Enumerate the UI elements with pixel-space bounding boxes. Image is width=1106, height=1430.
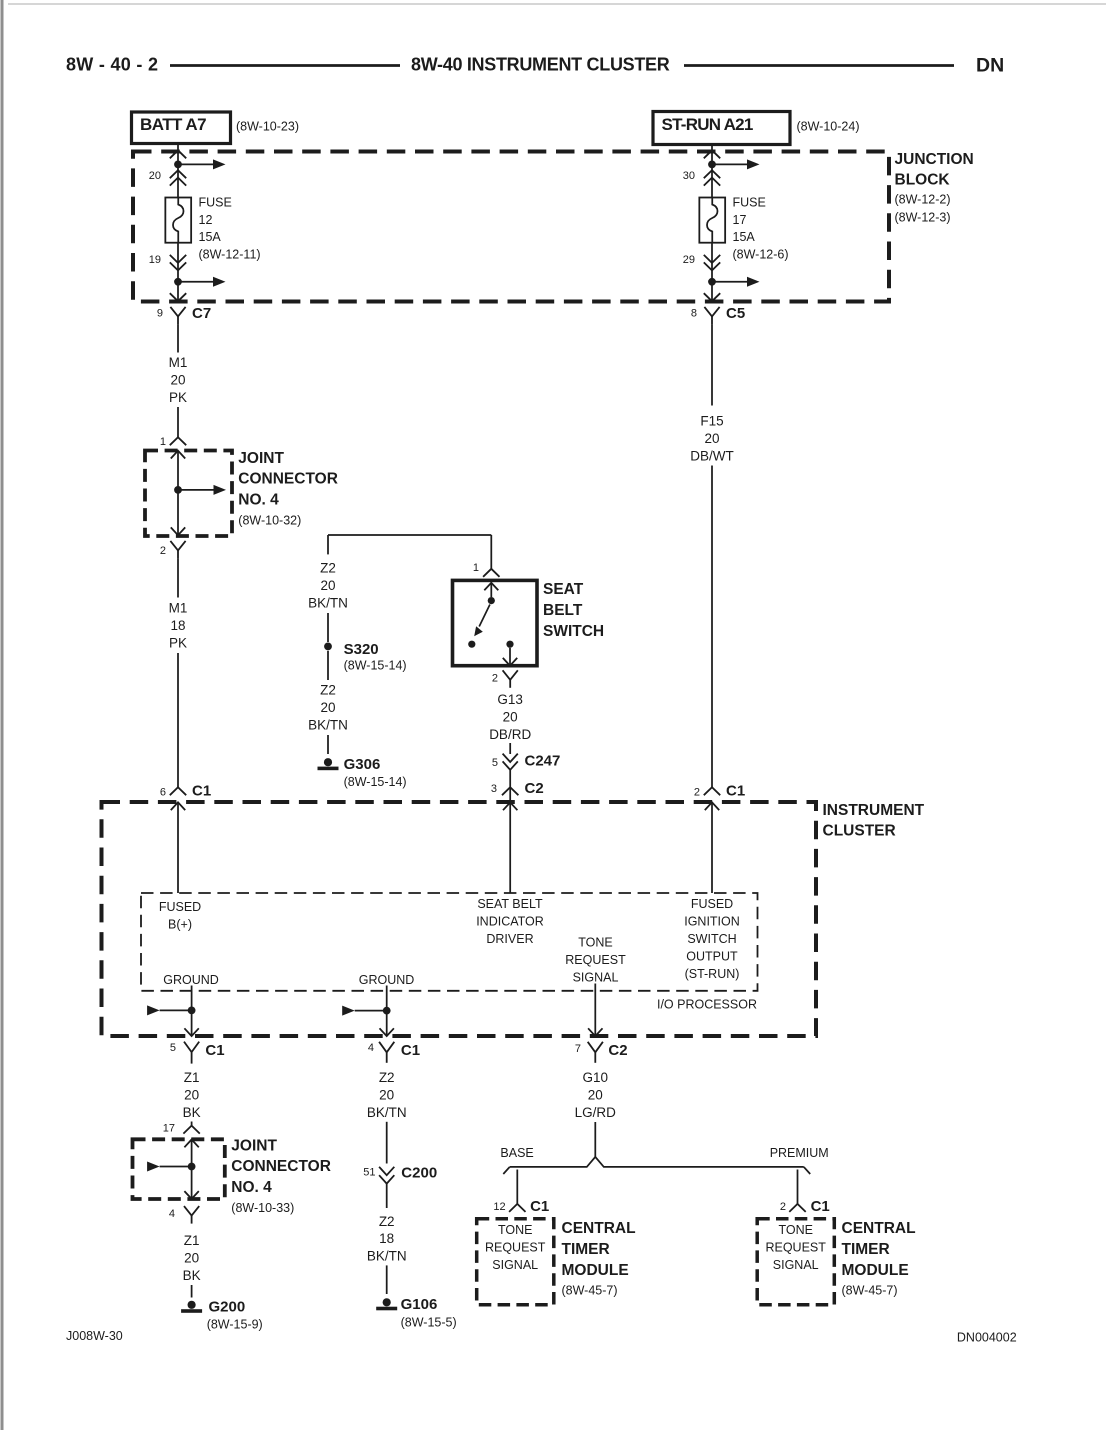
arrow into instrument cluster (fused B+) — [171, 802, 185, 810]
arrow out of joint connector (upper) — [171, 527, 185, 535]
svg-text:19: 19 — [149, 254, 161, 266]
svg-text:SIGNAL: SIGNAL — [492, 1258, 538, 1272]
svg-text:BK/TN: BK/TN — [308, 596, 348, 611]
double chevron terminal below fuse 12 — [170, 255, 186, 271]
wire through joint connector (upper) — [177, 451, 179, 536]
in-line connector C1 symbol (ground left) — [184, 1042, 199, 1064]
fuse 12 label — [199, 196, 261, 262]
pin 7 (cluster C2) — [575, 1043, 581, 1055]
pin 4 (joint connector lower) — [169, 1208, 175, 1220]
svg-text:FUSE: FUSE — [733, 196, 766, 210]
pin 12 (CTM base C1) — [493, 1201, 505, 1213]
wire label G10 20 LG/RD — [575, 1070, 617, 1120]
reference (8W-10-24) — [797, 120, 860, 134]
switch common contact — [488, 597, 495, 604]
pin 30 — [683, 170, 695, 182]
svg-text:GROUND: GROUND — [163, 973, 219, 987]
svg-text:SIGNAL: SIGNAL — [573, 970, 619, 984]
svg-text:20: 20 — [170, 372, 185, 387]
connector chevron at joint connector no.4 (lower) entry — [183, 1126, 199, 1134]
svg-text:20: 20 — [320, 700, 335, 715]
svg-text:8: 8 — [691, 308, 697, 320]
pin 3 (C2) — [491, 783, 497, 795]
connector symbol at switch pin 2 — [503, 670, 518, 688]
svg-text:B(+): B(+) — [168, 917, 192, 931]
wire G13 to C247 — [509, 743, 511, 754]
svg-text:BK/TN: BK/TN — [367, 1249, 407, 1264]
connector chevron at junction block entry (BATT) — [170, 150, 186, 158]
junction dot with incoming branch arrow (ground left) — [147, 1005, 195, 1015]
label C5 — [726, 305, 745, 322]
central timer module (base) boundary — [477, 1219, 554, 1305]
svg-text:1: 1 — [160, 436, 166, 448]
svg-text:Z2: Z2 — [320, 561, 336, 576]
svg-text:SIGNAL: SIGNAL — [773, 1258, 819, 1272]
label C200 — [401, 1164, 437, 1181]
arrow into joint connector (lower) — [184, 1140, 198, 1148]
svg-text:4: 4 — [368, 1042, 374, 1054]
central timer module (premium) label — [842, 1220, 916, 1297]
svg-text:20: 20 — [184, 1088, 199, 1103]
wire splitter brace — [503, 1157, 810, 1174]
pin 8 — [691, 308, 697, 320]
connector chevron at junction block exit (C7) — [170, 293, 186, 301]
pin 17 — [163, 1123, 175, 1135]
pin 9 — [157, 308, 163, 320]
svg-text:SEAT BELT: SEAT BELT — [477, 897, 543, 911]
svg-text:I/O PROCESSOR: I/O PROCESSOR — [657, 998, 757, 1012]
pin 6 — [160, 787, 166, 799]
header rule left — [170, 64, 400, 67]
wire M1 18 PK to instrument cluster C1 — [177, 653, 179, 787]
connector symbol below joint connector (upper) — [170, 541, 185, 559]
svg-text:C200: C200 — [401, 1164, 437, 1181]
svg-text:(8W-12-2): (8W-12-2) — [895, 193, 951, 207]
in-line connector C7 symbol — [170, 307, 185, 325]
svg-text:20: 20 — [184, 1250, 199, 1265]
svg-text:9: 9 — [157, 308, 163, 320]
wire label Z1 20 BK (upper) — [183, 1070, 201, 1120]
svg-text:(ST-RUN): (ST-RUN) — [685, 967, 740, 981]
svg-text:REQUEST: REQUEST — [485, 1240, 546, 1254]
wire label F15 20 DB/WT — [690, 413, 734, 463]
port label TONE REQUEST SIGNAL (base) — [485, 1223, 546, 1272]
wire C200 to Z2 18 label — [386, 1184, 388, 1208]
pin 51 (C200) — [363, 1167, 375, 1179]
switch blade arrow — [474, 605, 490, 637]
svg-text:CENTRAL: CENTRAL — [562, 1220, 636, 1237]
svg-text:CONNECTOR: CONNECTOR — [238, 471, 338, 488]
wire Z2 to splice S320 — [327, 613, 329, 642]
in-line connector C1 symbol (ground right) — [379, 1042, 394, 1063]
footer drawing number DN004002 — [957, 1331, 1017, 1345]
svg-text:(8W-10-33): (8W-10-33) — [231, 1201, 294, 1215]
svg-text:6: 6 — [160, 787, 166, 799]
fuse 12 symbol — [165, 198, 191, 243]
in-line connector C2 symbol (tone request) — [588, 1042, 603, 1063]
central timer module (premium) boundary — [757, 1219, 834, 1305]
svg-text:CLUSTER: CLUSTER — [823, 822, 896, 839]
svg-text:BK/TN: BK/TN — [367, 1105, 407, 1120]
svg-text:C1: C1 — [205, 1042, 224, 1059]
wire C7 to M1 label — [177, 324, 179, 352]
svg-text:20: 20 — [588, 1088, 603, 1103]
I/O processor label — [657, 998, 757, 1012]
wire label G13 20 DB/RD — [489, 692, 531, 742]
arrow into instrument cluster (fused ignition) — [705, 802, 719, 810]
port label GROUND (right) — [359, 973, 415, 987]
svg-text:S320: S320 — [344, 641, 379, 658]
svg-text:5: 5 — [492, 757, 498, 769]
label G306 — [344, 756, 407, 789]
svg-text:DB/RD: DB/RD — [489, 727, 531, 742]
svg-text:C1: C1 — [192, 783, 211, 800]
wire switch output to pin 2 — [509, 648, 511, 666]
wire joint connector to M1 18 label — [177, 558, 179, 597]
port label TONE REQUEST SIGNAL (premium) — [765, 1223, 826, 1272]
wire Z1 to ground G200 — [191, 1285, 193, 1298]
wire C247 to I/O processor — [509, 770, 511, 893]
svg-text:INSTRUMENT: INSTRUMENT — [823, 802, 925, 819]
wire label Z2 20 BK/TN (lower) — [308, 683, 348, 733]
svg-text:(8W-12-11): (8W-12-11) — [199, 248, 261, 262]
svg-text:5: 5 — [170, 1042, 176, 1054]
svg-text:SWITCH: SWITCH — [687, 932, 736, 946]
wire label Z2 20 BK/TN (upper) — [308, 561, 348, 611]
joint connector no.4 (lower) boundary — [133, 1139, 225, 1199]
svg-text:4: 4 — [169, 1208, 175, 1220]
connector chevron at CTM base — [509, 1204, 525, 1212]
svg-text:MODULE: MODULE — [562, 1262, 629, 1279]
label G200 — [207, 1299, 263, 1332]
svg-text:20: 20 — [149, 170, 161, 182]
svg-text:IGNITION: IGNITION — [684, 915, 740, 929]
wire through joint connector (lower) — [191, 1140, 193, 1199]
svg-text:FUSE: FUSE — [199, 196, 232, 210]
wire M1 to joint connector — [177, 407, 179, 438]
wire C5 down — [711, 324, 713, 405]
svg-text:PK: PK — [169, 636, 187, 651]
svg-text:C1: C1 — [530, 1198, 549, 1215]
junction dot with branch arrow (fuse 17 feed) — [708, 159, 759, 169]
svg-text:TONE: TONE — [578, 935, 613, 949]
wire Z2 to C200 — [386, 1122, 388, 1164]
svg-text:BLOCK: BLOCK — [895, 171, 951, 188]
svg-text:TIMER: TIMER — [842, 1241, 890, 1258]
in-line connector C200 symbol — [379, 1167, 394, 1184]
branch label BASE — [500, 1146, 533, 1160]
label C7 — [192, 305, 211, 322]
connector chevron at CTM premium — [789, 1204, 805, 1212]
svg-text:12: 12 — [493, 1201, 505, 1213]
svg-text:G106: G106 — [401, 1296, 438, 1313]
terminal chevron inside switch — [484, 583, 498, 591]
svg-text:7: 7 — [575, 1043, 581, 1055]
svg-text:20: 20 — [320, 578, 335, 593]
switch output contact — [506, 641, 513, 648]
pin 20 — [149, 170, 161, 182]
node BATT A7 — [132, 112, 231, 144]
svg-text:C2: C2 — [525, 780, 544, 797]
seat belt switch label — [543, 581, 604, 640]
pin 5 (C247) — [492, 757, 498, 769]
wire fuse 12 to C7 — [177, 243, 179, 301]
svg-text:F15: F15 — [700, 413, 723, 428]
pin 5 (cluster C1) — [170, 1042, 176, 1054]
label C2 — [525, 780, 544, 797]
svg-text:2: 2 — [492, 673, 498, 685]
svg-text:M1: M1 — [169, 355, 188, 370]
pin 2 (seat belt switch) — [492, 673, 498, 685]
svg-text:(8W-10-32): (8W-10-32) — [238, 513, 301, 527]
junction block boundary — [133, 152, 889, 302]
svg-text:BK: BK — [183, 1268, 201, 1283]
svg-text:JUNCTION: JUNCTION — [895, 151, 974, 168]
pin 2 (CTM premium C1) — [780, 1201, 786, 1213]
wire premium branch — [797, 1170, 799, 1204]
splice S320 — [324, 643, 332, 651]
connector chevron at junction block exit (C5) — [704, 293, 720, 301]
svg-text:(8W-15-5): (8W-15-5) — [401, 1316, 457, 1330]
svg-text:3: 3 — [491, 783, 497, 795]
svg-text:JOINT: JOINT — [238, 450, 284, 467]
port label GROUND (left) — [163, 973, 219, 987]
svg-text:PREMIUM: PREMIUM — [770, 1146, 829, 1160]
svg-text:C1: C1 — [401, 1042, 420, 1059]
fuse 17 label — [733, 196, 789, 262]
svg-text:G306: G306 — [344, 756, 381, 773]
svg-text:BK/TN: BK/TN — [308, 718, 348, 733]
branch label PREMIUM — [770, 1146, 829, 1160]
connector chevron at joint connector entry — [170, 437, 186, 445]
svg-text:51: 51 — [363, 1167, 375, 1179]
svg-text:ST-RUN A21: ST-RUN A21 — [662, 115, 753, 134]
connector symbol below joint connector (lower) — [184, 1206, 199, 1224]
svg-text:18: 18 — [379, 1231, 394, 1246]
svg-text:(8W-15-9): (8W-15-9) — [207, 1318, 263, 1332]
svg-text:(8W-10-24): (8W-10-24) — [797, 120, 860, 134]
svg-text:SWITCH: SWITCH — [543, 623, 604, 640]
ground G200 — [181, 1301, 202, 1313]
joint connector bus dot with incoming arrow — [147, 1162, 195, 1172]
label C1 (ground right) — [401, 1042, 420, 1059]
instrument cluster label — [823, 802, 925, 840]
wire ST-RUN A21 to fuse 17 — [711, 145, 713, 198]
wire G10 to splitter — [594, 1122, 596, 1158]
svg-text:(8W-15-14): (8W-15-14) — [344, 775, 407, 789]
svg-text:15A: 15A — [733, 230, 756, 244]
svg-text:TONE: TONE — [498, 1223, 533, 1237]
joint connector no.4 (upper) boundary — [145, 451, 232, 537]
svg-text:G10: G10 — [583, 1070, 609, 1085]
junction dot with incoming branch arrow (ground right) — [342, 1006, 390, 1016]
svg-text:FUSED: FUSED — [159, 900, 201, 914]
svg-text:REQUEST: REQUEST — [765, 1240, 826, 1254]
wire label Z2 18 BK/TN — [367, 1214, 407, 1264]
svg-text:DB/WT: DB/WT — [690, 448, 734, 463]
pin 1 (seat belt switch) — [473, 562, 479, 574]
svg-text:Z2: Z2 — [379, 1070, 395, 1085]
svg-text:18: 18 — [170, 618, 185, 633]
joint connector bus dot with branch arrow — [174, 485, 226, 495]
port label TONE REQUEST SIGNAL — [565, 935, 626, 984]
svg-text:LG/RD: LG/RD — [575, 1105, 617, 1120]
wire ground right out of cluster — [386, 986, 388, 1036]
label G106 — [401, 1296, 457, 1330]
svg-text:DN: DN — [976, 55, 1004, 77]
wire Z2 to ground G106 — [386, 1265, 388, 1294]
svg-text:17: 17 — [733, 213, 747, 227]
instrument cluster boundary — [102, 802, 817, 1036]
label C1 (ground left) — [205, 1042, 224, 1059]
label C1 (fused ignition) — [726, 783, 745, 800]
label C2 (tone request) — [608, 1042, 627, 1059]
pin 29 — [683, 254, 695, 266]
wire ground left out of cluster — [191, 986, 193, 1036]
svg-text:(8W-12-3): (8W-12-3) — [895, 211, 951, 225]
ground G306 — [318, 758, 339, 770]
svg-text:C7: C7 — [192, 305, 211, 322]
svg-text:C247: C247 — [525, 753, 561, 770]
svg-text:17: 17 — [163, 1123, 175, 1135]
joint connector no.4 (upper) label — [238, 450, 338, 528]
wire base branch — [516, 1170, 518, 1204]
wire BATT A7 to fuse 12 — [177, 144, 179, 198]
svg-text:JOINT: JOINT — [231, 1137, 277, 1154]
connector chevron at seat belt switch pin 1 — [483, 569, 499, 577]
connector chevron at cluster entry C1 — [170, 787, 186, 795]
junction dot with branch arrow (fuse 17 output) — [708, 277, 759, 287]
svg-text:BASE: BASE — [500, 1146, 533, 1160]
wire label M1 20 PK — [169, 355, 188, 405]
wire Z1 to joint connector — [191, 1122, 193, 1126]
pin 2 (cluster C1) — [694, 787, 700, 799]
double chevron terminal above fuse 17 — [704, 170, 720, 185]
svg-text:C2: C2 — [608, 1042, 627, 1059]
junction dot with branch arrow (fuse 12 output) — [174, 277, 225, 287]
svg-text:(8W-10-23): (8W-10-23) — [236, 120, 299, 134]
svg-text:INDICATOR: INDICATOR — [476, 915, 544, 929]
footer sheet number J008W-30 — [66, 1329, 123, 1343]
svg-text:CENTRAL: CENTRAL — [842, 1220, 916, 1237]
svg-text:2: 2 — [160, 545, 166, 557]
wire Z2 to ground G306 — [327, 735, 329, 754]
svg-text:NO. 4: NO. 4 — [231, 1179, 272, 1196]
pin 19 — [149, 254, 161, 266]
svg-text:2: 2 — [694, 787, 700, 799]
svg-text:BATT A7: BATT A7 — [140, 115, 206, 134]
wire fuse 17 to C5 — [711, 243, 713, 301]
joint connector no.4 (lower) label — [231, 1137, 331, 1215]
header code DN — [976, 55, 1004, 77]
pin 1 — [160, 436, 166, 448]
svg-text:Z1: Z1 — [184, 1070, 200, 1085]
in-line connector C5 symbol — [704, 307, 719, 325]
svg-text:20: 20 — [379, 1088, 394, 1103]
label C1 (CTM base) — [530, 1198, 549, 1215]
wire into I/O processor (fused ignition) — [711, 802, 713, 893]
svg-text:MODULE: MODULE — [842, 1262, 909, 1279]
svg-text:Z2: Z2 — [379, 1214, 395, 1229]
svg-text:C1: C1 — [811, 1198, 830, 1215]
wire to switch common — [490, 583, 492, 597]
label C1 (CTM premium) — [811, 1198, 830, 1215]
wire tone request out of cluster — [594, 984, 596, 1036]
label S320 — [344, 641, 407, 673]
port label SEAT BELT INDICATOR DRIVER — [476, 897, 544, 946]
arrow into instrument cluster (seat belt driver) — [503, 802, 517, 810]
svg-text:(8W-12-6): (8W-12-6) — [733, 248, 789, 262]
svg-text:BK: BK — [183, 1105, 201, 1120]
svg-text:Z2: Z2 — [320, 683, 336, 698]
double chevron terminal above fuse 12 — [170, 170, 186, 185]
pin 4 (cluster C1) — [368, 1042, 374, 1054]
header page number 8W - 40 - 2 — [66, 55, 158, 75]
svg-text:8W-40 INSTRUMENT CLUSTER: 8W-40 INSTRUMENT CLUSTER — [411, 55, 670, 75]
svg-text:PK: PK — [169, 390, 187, 405]
svg-text:G200: G200 — [209, 1299, 246, 1316]
port label FUSED B(+) — [159, 900, 201, 931]
svg-text:CONNECTOR: CONNECTOR — [231, 1158, 331, 1175]
wire into I/O processor (fused B+) — [177, 802, 179, 893]
wire label M1 18 PK — [169, 601, 188, 651]
svg-text:NO. 4: NO. 4 — [238, 492, 279, 509]
node ST-RUN A21 — [653, 112, 790, 145]
I/O processor boundary — [141, 893, 758, 991]
svg-text:G13: G13 — [497, 692, 523, 707]
svg-text:TONE: TONE — [778, 1223, 813, 1237]
label C247 — [525, 753, 561, 770]
pin 2 — [160, 545, 166, 557]
svg-text:1: 1 — [473, 562, 479, 574]
in-line connector C247 symbol — [503, 754, 518, 770]
arrow out of seat belt switch — [503, 658, 517, 666]
svg-text:DN004002: DN004002 — [957, 1331, 1017, 1345]
svg-text:30: 30 — [683, 170, 695, 182]
svg-text:20: 20 — [503, 710, 518, 725]
svg-text:FUSED: FUSED — [691, 897, 733, 911]
svg-text:J008W-30: J008W-30 — [66, 1329, 123, 1343]
svg-text:(8W-45-7): (8W-45-7) — [562, 1283, 618, 1297]
svg-text:(8W-45-7): (8W-45-7) — [842, 1283, 898, 1297]
junction dot with branch arrow (fuse 12 feed) — [174, 159, 225, 169]
svg-text:BELT: BELT — [543, 602, 583, 619]
header rule right — [684, 64, 954, 67]
ground G106 — [376, 1298, 397, 1310]
port label FUSED IGNITION SWITCH OUTPUT (ST-RUN) — [684, 897, 740, 981]
svg-text:OUTPUT: OUTPUT — [686, 950, 738, 964]
arrow into joint connector (upper) — [171, 451, 185, 459]
wire F15 to instrument cluster C1 — [711, 466, 713, 788]
svg-text:GROUND: GROUND — [359, 973, 415, 987]
junction block label — [895, 151, 974, 225]
svg-text:Z1: Z1 — [184, 1233, 200, 1248]
connector chevron at junction block entry (ST-RUN) — [704, 150, 720, 158]
label C1 (fused B+) — [192, 783, 211, 800]
seat belt switch boundary — [453, 580, 538, 665]
svg-text:C1: C1 — [726, 783, 745, 800]
wire label Z2 20 BK/TN (cluster) — [367, 1070, 407, 1120]
wire Z2 branch to seat belt switch — [328, 535, 491, 569]
svg-text:(8W-15-14): (8W-15-14) — [344, 659, 407, 673]
arrow out of instrument cluster (ground left) — [184, 1028, 198, 1036]
svg-text:REQUEST: REQUEST — [565, 953, 626, 967]
svg-text:C5: C5 — [726, 305, 745, 322]
connector chevron at cluster entry C1 (ST-RUN) — [704, 787, 720, 795]
connector chevron at cluster entry C2 — [502, 787, 518, 795]
reference (8W-10-23) — [236, 120, 299, 134]
double chevron terminal below fuse 17 — [704, 255, 720, 271]
